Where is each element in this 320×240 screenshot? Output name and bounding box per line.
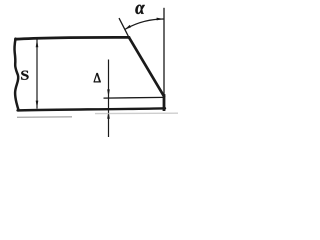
faint scan streak left: [17, 116, 72, 119]
S top arrowhead: [36, 39, 39, 47]
faint scan streak right: [95, 112, 178, 114]
S dimension line: [36, 40, 38, 109]
top edge: [16, 37, 130, 39]
bottom edge: [18, 108, 166, 110]
angle dimension arc: [124, 19, 163, 30]
label S: [21, 71, 28, 80]
delta dimension line (thin horizontal at bevel root): [104, 96, 165, 99]
label alpha: [135, 5, 144, 14]
right vertical edge: [163, 96, 166, 110]
delta leader line (vertical): [108, 60, 110, 138]
label delta: [94, 73, 101, 82]
bevel slant edge: [129, 37, 164, 96]
thin vertical extension line: [163, 8, 165, 96]
left break (wavy) edge: [14, 39, 18, 111]
S bottom arrowhead: [36, 101, 39, 109]
thin slant extension line (above corner): [119, 18, 130, 38]
delta down arrowhead: [107, 89, 110, 97]
delta up arrowhead: [107, 111, 110, 119]
arc left arrowhead: [124, 25, 131, 30]
arc right arrowhead: [157, 18, 164, 21]
